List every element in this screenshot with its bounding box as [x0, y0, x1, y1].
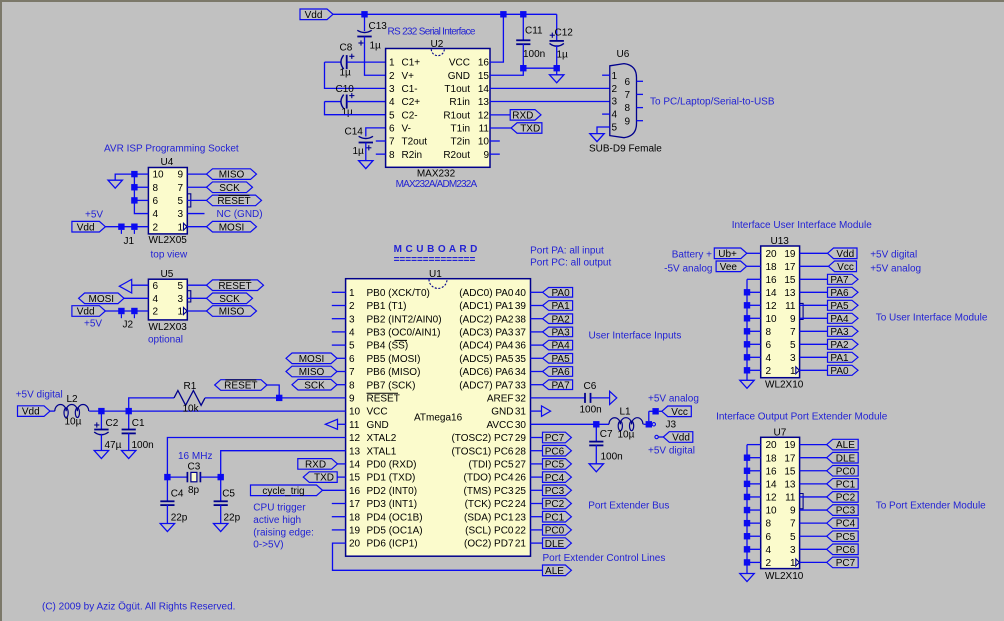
- stub U6 pin1: [602, 74, 610, 76]
- note raising edge: [253, 527, 314, 538]
- net flag PA3 (U13): [828, 326, 859, 338]
- net flag RESET (U5): [207, 280, 264, 292]
- U7 value WL2X10: [765, 571, 804, 582]
- wire C7 to ground: [595, 445, 597, 464]
- U2 value MAX232: [417, 169, 456, 180]
- wire U1 to PA3: [531, 331, 543, 333]
- wire U1 to PA0: [531, 291, 543, 293]
- svg-text:PC4: PC4: [836, 519, 856, 530]
- svg-text:C2-: C2-: [402, 110, 418, 121]
- svg-text:PD0 (RXD): PD0 (RXD): [367, 460, 417, 471]
- wire U1 to PA5: [531, 357, 543, 359]
- svg-text:Vdd: Vdd: [77, 307, 95, 318]
- net flag Vdd (U13): [828, 248, 858, 260]
- svg-text:18: 18: [766, 453, 778, 464]
- svg-text:To User Interface Module: To User Interface Module: [876, 312, 988, 323]
- svg-text:SCK: SCK: [304, 380, 325, 391]
- svg-text:(TDO) PC4: (TDO) PC4: [464, 473, 514, 484]
- svg-text:PA7: PA7: [552, 380, 571, 391]
- svg-text:RXD: RXD: [305, 460, 326, 471]
- IC U1 ATmega16: [346, 279, 531, 557]
- svg-text:AREF: AREF: [487, 394, 514, 405]
- svg-text:(raising edge:: (raising edge:: [253, 527, 314, 538]
- net flag PC1 (U1): [543, 511, 572, 523]
- svg-text:11: 11: [785, 301, 796, 312]
- C6 designator: [584, 381, 597, 392]
- svg-text:+5V: +5V: [85, 210, 103, 221]
- svg-text:12: 12: [349, 433, 361, 444]
- note Port PA: all input: [530, 246, 604, 257]
- J1 designator: [124, 236, 135, 247]
- ground (C14): [359, 161, 373, 169]
- svg-text:4: 4: [153, 294, 159, 305]
- wire U1 to PC2: [531, 503, 543, 505]
- svg-text:100n: 100n: [523, 49, 545, 60]
- note +5V (J2): [84, 319, 102, 330]
- jumper J3: [646, 408, 659, 439]
- stub U6 pin4: [602, 113, 610, 115]
- wire U13 gnd bus to pin12: [747, 304, 761, 306]
- svg-text:Interface Output Port Extender: Interface Output Port Extender Module: [716, 412, 888, 423]
- open pin arrow (U1 GND pin31): [542, 406, 551, 416]
- svg-text:10µ: 10µ: [65, 417, 82, 428]
- junction U13 bus row4: [744, 289, 750, 295]
- svg-text:VCC: VCC: [449, 58, 470, 69]
- svg-text:XTAL1: XTAL1: [367, 446, 397, 457]
- svg-text:DLE: DLE: [545, 539, 565, 550]
- junction U7 bus row10: [744, 559, 750, 565]
- svg-text:PA1: PA1: [552, 301, 571, 312]
- note NC (GND): [217, 209, 263, 220]
- svg-text:15: 15: [784, 466, 796, 477]
- net flag DLE (U1): [543, 538, 572, 550]
- svg-text:Vcc: Vcc: [671, 407, 688, 418]
- svg-text:+5V analog: +5V analog: [870, 263, 921, 274]
- svg-text:13: 13: [349, 446, 361, 457]
- svg-text:ALE: ALE: [836, 440, 855, 451]
- C1 designator: [132, 418, 145, 429]
- svg-text:(C) 2009 by Aziz Ögüt. All Rig: (C) 2009 by Aziz Ögüt. All Rights Reserv…: [42, 601, 235, 613]
- svg-text:PA6: PA6: [830, 288, 849, 299]
- wire U7 pin15 to PC0: [800, 470, 827, 472]
- jumper J2: [118, 308, 137, 318]
- svg-text:3: 3: [177, 209, 183, 220]
- C14 designator: [345, 127, 364, 138]
- svg-text:C13: C13: [369, 21, 388, 32]
- wire +5V rail to U1 VCC pin10: [89, 410, 345, 412]
- svg-text:(ADC0) PA0: (ADC0) PA0: [459, 288, 514, 299]
- net flag PA4 (U13): [828, 313, 859, 325]
- title underline: [394, 255, 476, 266]
- wire U1 to PC1: [531, 516, 543, 518]
- svg-text:PA5: PA5: [552, 354, 571, 365]
- svg-text:M C U B O A R D: M C U B O A R D: [394, 244, 478, 255]
- svg-text:19: 19: [784, 249, 796, 260]
- net flag PA7 (U1): [543, 380, 573, 391]
- C4 designator: [171, 489, 184, 500]
- svg-text:6: 6: [153, 196, 159, 207]
- R1 designator: [184, 381, 197, 392]
- svg-text:MOSI: MOSI: [219, 222, 245, 233]
- junction U7 bus row3: [744, 468, 750, 474]
- wire C4 to ground: [166, 505, 168, 524]
- svg-text:16: 16: [478, 58, 490, 69]
- C13 value 1u: [370, 41, 382, 52]
- svg-text:Port PA: all input: Port PA: all input: [530, 246, 604, 257]
- svg-text:User Interface Inputs: User Interface Inputs: [589, 331, 682, 342]
- svg-text:PC6: PC6: [545, 446, 565, 457]
- note +5V digital (left): [16, 389, 63, 400]
- wire C2 top: [100, 411, 102, 429]
- stub U1 pin5: [332, 344, 346, 346]
- svg-text:5: 5: [177, 281, 183, 292]
- note +5V digital (U13): [870, 250, 917, 261]
- wire U7 pin19 to ALE: [800, 444, 827, 446]
- capacitor C6: [585, 393, 591, 403]
- wire Vdd to L2: [50, 410, 55, 412]
- open pin arrow (U5 pin6): [119, 279, 131, 293]
- svg-text:MISO: MISO: [219, 170, 245, 181]
- svg-text:PB6 (MISO): PB6 (MISO): [367, 367, 421, 378]
- wire U7 gnd bus to pin4: [747, 548, 761, 550]
- note To PC/Laptop/Serial-to-USB: [650, 97, 775, 108]
- U4 value WL2X05: [149, 235, 188, 246]
- svg-text:3: 3: [349, 314, 355, 325]
- svg-text:15: 15: [349, 473, 361, 484]
- svg-text:6: 6: [349, 354, 355, 365]
- svg-text:Ub+: Ub+: [718, 249, 737, 260]
- capacitor C2: [94, 422, 108, 434]
- note Port PC: all output: [530, 257, 611, 268]
- wire U13 to PA0: [800, 369, 828, 371]
- svg-text:J3: J3: [666, 420, 677, 431]
- svg-text:3: 3: [790, 353, 796, 364]
- net flag Ub+: [714, 248, 747, 260]
- junction Vdd/C13: [361, 11, 367, 17]
- svg-text:2: 2: [153, 307, 159, 318]
- svg-text:PC3: PC3: [545, 486, 565, 497]
- junction U7 bus row7: [744, 520, 750, 526]
- wire C5 to ground: [220, 505, 222, 524]
- svg-text:active high: active high: [253, 515, 301, 526]
- capacitor C1: [122, 430, 136, 434]
- wire C1 to ground: [128, 433, 130, 451]
- wire U7 gnd bus to pin16: [747, 470, 761, 472]
- wire Vee to U13 pin18: [747, 265, 761, 267]
- U2 note MAX232A/ADM232A: [396, 179, 478, 190]
- svg-text:PC4: PC4: [545, 473, 565, 484]
- wire U1 to PC3: [531, 489, 543, 491]
- svg-text:C1+: C1+: [402, 58, 421, 69]
- svg-text:WL2X10: WL2X10: [765, 571, 804, 582]
- svg-text:6: 6: [766, 532, 772, 543]
- svg-text:10: 10: [766, 314, 778, 325]
- svg-text:17: 17: [349, 499, 361, 510]
- net flag RXD (MAX232): [510, 110, 541, 122]
- R1 value 10k: [183, 404, 200, 415]
- svg-text:PD1 (TXD): PD1 (TXD): [367, 473, 416, 484]
- note Port Extender Bus: [588, 501, 669, 512]
- wire C11 bottom: [522, 44, 524, 68]
- svg-text:U1: U1: [429, 269, 442, 280]
- C12 designator: [555, 28, 574, 39]
- wire C8 left: [325, 61, 342, 63]
- note -5V analog: [664, 263, 712, 274]
- svg-text:PD5 (OC1A): PD5 (OC1A): [367, 526, 423, 537]
- ground (U4): [108, 180, 122, 188]
- net flag PA1 (U13): [828, 352, 859, 364]
- capacitor C14: [359, 136, 373, 150]
- net flag Vdd (J3): [663, 432, 693, 444]
- U13 designator: [771, 236, 790, 247]
- junction C12/ground rail: [554, 65, 560, 71]
- svg-text:24: 24: [515, 499, 527, 510]
- svg-text:9: 9: [790, 314, 796, 325]
- wire C4 top: [166, 477, 168, 501]
- capacitor C5: [214, 501, 228, 505]
- note +5V analog (U13): [870, 263, 921, 274]
- connector U4 WL2X05: [148, 168, 190, 234]
- wire C13 to U2 pin2 V+: [365, 37, 386, 76]
- svg-text:C5: C5: [222, 489, 235, 500]
- note 0->5V: [253, 539, 283, 550]
- net flag MISO (U4): [207, 169, 257, 181]
- wire Vdd to U5 pin2 via J2: [105, 310, 148, 312]
- capacitor C4: [160, 501, 174, 505]
- net flag PC1 (U7): [827, 479, 859, 491]
- inductor L1: [609, 418, 643, 431]
- svg-text:PA6: PA6: [552, 367, 571, 378]
- svg-text:WL2X05: WL2X05: [149, 235, 188, 246]
- wire ground rail: [523, 67, 556, 69]
- connector U5 WL2X03: [148, 279, 190, 320]
- connector U7 WL2X10: [761, 437, 803, 569]
- svg-text:C1-: C1-: [402, 84, 418, 95]
- net flag PC5 (U7): [827, 531, 859, 543]
- stub U6 pin7: [637, 93, 644, 95]
- note Port Extender Control Lines: [543, 553, 666, 564]
- svg-text:+5V digital: +5V digital: [16, 389, 63, 400]
- svg-text:20: 20: [349, 539, 361, 550]
- svg-text:32: 32: [515, 394, 527, 405]
- stub U1 pin17: [332, 503, 346, 505]
- wire U7 gnd bus to pin2: [747, 561, 761, 563]
- svg-text:100n: 100n: [132, 440, 154, 451]
- svg-text:4: 4: [766, 545, 772, 556]
- wire T1out to U6 pin2: [490, 87, 610, 89]
- svg-text:13: 13: [478, 97, 490, 108]
- svg-text:WL2X10: WL2X10: [765, 380, 804, 391]
- jumper J1: [118, 224, 137, 234]
- svg-text:top view: top view: [151, 250, 188, 261]
- wire U13 gnd bus to pin16: [747, 278, 761, 280]
- junction U4 gnd bus row2: [131, 184, 137, 190]
- wire U6 pin5 to ground: [597, 127, 610, 134]
- wire L1 to J3: [643, 423, 648, 425]
- U6 value SUB-D9 Female: [589, 144, 662, 155]
- svg-text:(TMS) PC3: (TMS) PC3: [464, 486, 514, 497]
- junction U7 bus row4: [744, 481, 750, 487]
- svg-text:MISO: MISO: [219, 307, 245, 318]
- svg-text:MISO: MISO: [299, 367, 325, 378]
- svg-text:9: 9: [349, 394, 355, 405]
- wire U7 pin5 to PC5: [800, 535, 827, 537]
- net flag PC6 (U1): [543, 445, 572, 457]
- wire U1 to PA2: [531, 318, 543, 320]
- svg-text:20: 20: [766, 249, 778, 260]
- C13 designator: [369, 21, 388, 32]
- svg-text:3: 3: [612, 97, 618, 108]
- svg-text:Vcc: Vcc: [837, 262, 854, 273]
- svg-text:C7: C7: [600, 429, 613, 440]
- svg-text:R1out: R1out: [443, 110, 470, 121]
- svg-text:11: 11: [479, 123, 490, 134]
- svg-text:PB0 (XCK/T0): PB0 (XCK/T0): [367, 288, 430, 299]
- svg-text:28: 28: [515, 446, 527, 457]
- wire U4 pin8 stub: [134, 186, 148, 188]
- wire C6 right: [591, 397, 610, 399]
- net flag RXD (U1): [298, 459, 338, 471]
- svg-text:5: 5: [177, 196, 183, 207]
- wire U13 pin17 to Vcc: [800, 265, 829, 267]
- wire U13 to PA7: [800, 278, 828, 280]
- svg-text:To PC/Laptop/Serial-to-USB: To PC/Laptop/Serial-to-USB: [650, 97, 775, 108]
- wire U1 to PA4: [531, 344, 543, 346]
- svg-text:10: 10: [153, 170, 165, 181]
- wire U1 to PA6: [531, 371, 543, 373]
- svg-text:Vdd: Vdd: [672, 433, 690, 444]
- svg-text:4: 4: [612, 110, 618, 121]
- svg-text:6: 6: [766, 340, 772, 351]
- svg-text:CPU trigger: CPU trigger: [253, 503, 306, 514]
- svg-text:+5V: +5V: [84, 319, 102, 330]
- section title RS 232 Serial Interface: [388, 27, 476, 38]
- wire U13 to PA1: [800, 356, 828, 358]
- svg-text:23: 23: [515, 512, 527, 523]
- net flag RESET (U1): [215, 380, 267, 392]
- ground (U7): [740, 574, 754, 582]
- svg-text:RESET: RESET: [367, 394, 400, 405]
- net flag MISO (U5): [207, 306, 257, 318]
- svg-text:1: 1: [389, 58, 395, 69]
- svg-text:R1in: R1in: [449, 97, 470, 108]
- svg-text:31: 31: [515, 407, 527, 418]
- L2 value 10u: [65, 417, 82, 428]
- net flag PC3 (U7): [827, 505, 859, 517]
- svg-text:(TCK) PC2: (TCK) PC2: [465, 499, 514, 510]
- svg-text:1µ: 1µ: [342, 107, 354, 118]
- svg-text:WL2X03: WL2X03: [149, 322, 188, 333]
- svg-text:1: 1: [349, 288, 355, 299]
- svg-text:33: 33: [515, 380, 527, 391]
- svg-text:3: 3: [790, 545, 796, 556]
- svg-text:PD2 (INT0): PD2 (INT0): [367, 486, 418, 497]
- svg-text:PD3 (INT1): PD3 (INT1): [367, 499, 418, 510]
- L2 designator: [67, 394, 79, 405]
- svg-text:5: 5: [612, 123, 618, 134]
- svg-text:L1: L1: [620, 407, 632, 418]
- svg-text:T2out: T2out: [402, 137, 428, 148]
- svg-text:U2: U2: [431, 39, 444, 50]
- svg-text:C6: C6: [584, 381, 597, 392]
- open pin arrow (U1 GND pin11): [325, 419, 337, 429]
- svg-text:(ADC7) PA7: (ADC7) PA7: [459, 380, 514, 391]
- wire U1 to PA1: [531, 305, 543, 307]
- svg-text:(TOSC1) PC6: (TOSC1) PC6: [451, 446, 513, 457]
- svg-text:ATmega16: ATmega16: [414, 413, 463, 424]
- svg-text:25: 25: [515, 486, 527, 497]
- stub U1 GND pin31: [531, 410, 542, 412]
- section title Interface User Interface Module: [732, 220, 873, 231]
- svg-text:C2: C2: [106, 418, 119, 429]
- svg-text:PA1: PA1: [830, 353, 849, 364]
- svg-text:36: 36: [515, 341, 527, 352]
- wire RESET flag to net: [267, 385, 279, 398]
- svg-text:To Port Extender Module: To Port Extender Module: [876, 501, 986, 512]
- wire U7 pin3 to PC6: [800, 548, 827, 550]
- net flag MOSI (U1): [286, 353, 337, 365]
- wire U1 pin20 to ALE: [333, 543, 543, 570]
- wire R1in to U6 pin3: [490, 101, 610, 103]
- svg-text:2: 2: [349, 301, 355, 312]
- wire U7 gnd bus to pin10: [747, 509, 761, 511]
- svg-text:18: 18: [766, 262, 778, 273]
- wire U13 gnd bus to pin10: [747, 317, 761, 319]
- ground (U6 pin5): [590, 134, 604, 142]
- wire U13 to PA5: [800, 304, 828, 306]
- wire U7 gnd bus to pin18: [747, 457, 761, 459]
- net flag Vcc (J3): [662, 406, 692, 418]
- svg-text:T2in: T2in: [451, 137, 470, 148]
- U13 value WL2X10: [765, 380, 804, 391]
- svg-text:PA3: PA3: [830, 327, 849, 338]
- U1 designator: [429, 269, 442, 280]
- svg-text:16: 16: [766, 275, 778, 286]
- svg-text:8: 8: [153, 183, 159, 194]
- wire Vdd to C13: [364, 14, 366, 31]
- svg-text:(SDA) PC1: (SDA) PC1: [464, 512, 514, 523]
- svg-text:PB3 (OC0/AIN1): PB3 (OC0/AIN1): [367, 328, 441, 339]
- C1 value 100n: [132, 440, 154, 451]
- wire U7 pin17 to DLE: [800, 457, 827, 459]
- svg-text:PC6: PC6: [836, 545, 856, 556]
- svg-text:MOSI: MOSI: [299, 354, 325, 365]
- svg-text:Port Extender Control Lines: Port Extender Control Lines: [543, 553, 666, 564]
- svg-text:PC2: PC2: [545, 499, 565, 510]
- C10 value 1u: [342, 107, 354, 118]
- wire U4 pin6 stub: [134, 199, 148, 201]
- svg-text:12: 12: [766, 301, 778, 312]
- connector U13 WL2X10: [761, 246, 803, 378]
- svg-text:C11: C11: [525, 26, 543, 37]
- wire U7 gnd bus to pin20: [747, 444, 761, 446]
- svg-text:(ADC4) PA4: (ADC4) PA4: [459, 341, 514, 352]
- wire MISO to U1 pin7: [337, 371, 346, 373]
- wire C8 to U2 pin1 C1+: [347, 61, 386, 63]
- svg-text:(TDI) PC5: (TDI) PC5: [469, 460, 514, 471]
- svg-text:22p: 22p: [224, 513, 241, 524]
- note +5V (J1): [85, 210, 103, 221]
- net flag Vdd (J1): [72, 221, 106, 233]
- svg-text:8p: 8p: [188, 485, 200, 496]
- wire U5 to MISO: [187, 310, 206, 312]
- wire C5 top: [220, 477, 222, 501]
- svg-text:4: 4: [389, 97, 395, 108]
- svg-text:37: 37: [515, 328, 527, 339]
- wire C14 to ground: [365, 143, 367, 161]
- svg-text:35: 35: [515, 354, 527, 365]
- wire C12 top: [556, 14, 558, 40]
